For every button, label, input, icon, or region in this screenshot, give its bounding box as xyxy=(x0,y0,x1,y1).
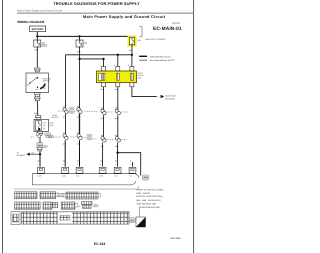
wire F3 down to node xyxy=(131,45,133,55)
connector T1 xyxy=(38,167,45,173)
svg-text:W/L: W/L xyxy=(129,49,132,52)
bracket for power-supply note xyxy=(140,27,142,37)
svg-text:: Non-detectable line for DTC: : Non-detectable line for DTC xyxy=(149,59,175,62)
wire col65 mid xyxy=(65,114,67,134)
wire col103 down xyxy=(102,143,104,167)
fuse F4 in J/B xyxy=(34,119,49,131)
node branch C end xyxy=(102,58,104,60)
wire col117 mid xyxy=(117,115,119,136)
connector T3 xyxy=(76,167,83,173)
svg-text:(M4) , (M6) : FUSE BLOCK-: (M4) , (M6) : FUSE BLOCK- xyxy=(136,199,161,202)
wire bus to F1 xyxy=(36,36,38,40)
wire J/B down xyxy=(39,135,41,166)
wire stub col132 xyxy=(132,162,134,167)
svg-text:8: 8 xyxy=(128,64,129,67)
connector face grid G2a xyxy=(15,202,40,209)
svg-text:JUNCTION BOX (J/B): JUNCTION BOX (J/B) xyxy=(136,202,156,205)
relay pin 3 top xyxy=(130,67,134,71)
header rule xyxy=(17,13,193,14)
connector face grid G2d xyxy=(61,202,75,209)
connector T2 xyxy=(62,167,69,173)
svg-text:Refer to EL-POWER.: Refer to EL-POWER. xyxy=(145,38,166,41)
relay pin 6 bottom xyxy=(130,83,134,87)
oval ref M6 xyxy=(47,135,54,137)
svg-text:MEC488B: MEC488B xyxy=(171,237,182,240)
svg-text:EC-MAIN-01: EC-MAIN-01 xyxy=(153,26,182,32)
connector face grid G1b xyxy=(40,192,56,199)
grid G1c label oval xyxy=(58,194,65,196)
wire battery to bus xyxy=(36,32,38,37)
small oval xyxy=(43,146,48,148)
svg-text:(E36) : SUPER: (E36) : SUPER xyxy=(136,192,150,195)
connector pair row2 col65 xyxy=(63,134,68,140)
svg-text:1: 1 xyxy=(158,95,159,98)
ECCS relay E1 highlight xyxy=(97,71,137,83)
wire top bus xyxy=(37,35,130,37)
grid G3 tail ovals xyxy=(129,218,135,220)
svg-text:W/L: W/L xyxy=(32,152,35,155)
connector below switch xyxy=(35,93,40,97)
wire into relay pin 1 xyxy=(103,59,105,67)
connector below J/B xyxy=(37,132,42,136)
fusible link F2 xyxy=(76,40,83,47)
wire branch C xyxy=(80,58,104,60)
connector into switch xyxy=(35,68,40,72)
svg-text:JUNCTION BOX (J/B): JUNCTION BOX (J/B) xyxy=(140,206,160,209)
svg-text:W/R: W/R xyxy=(35,49,39,52)
svg-text:B/W: B/W xyxy=(115,88,119,91)
grid G2 label oval xyxy=(93,205,99,207)
ignition switch S1 xyxy=(26,73,51,93)
connector pair row2 col117 xyxy=(115,137,120,143)
grids group rule xyxy=(14,186,139,189)
connector face grid G1c xyxy=(66,192,98,199)
svg-text:REFER TO THE FOLLOWING:: REFER TO THE FOLLOWING: xyxy=(136,189,164,192)
svg-text:Main Power Supply and Ground C: Main Power Supply and Ground Circuit xyxy=(83,14,166,19)
wire bus to F2 xyxy=(79,36,81,40)
connector below switch 2 xyxy=(35,97,40,101)
legend non-detectable line xyxy=(139,59,147,61)
connector stub xyxy=(37,147,42,151)
relay pin 1 top xyxy=(102,67,106,71)
wire relay pin5 down xyxy=(117,87,119,110)
connector pair row2 col103 xyxy=(101,137,106,143)
svg-text:To EC-MAIN: To EC-MAIN xyxy=(165,95,176,98)
wire branch right down xyxy=(118,153,141,176)
arrow to previous page xyxy=(26,153,29,156)
svg-text:(M4): (M4) xyxy=(50,124,54,127)
connector pair row2 col79 xyxy=(77,134,82,140)
svg-text:B/W: B/W xyxy=(115,160,119,163)
wire col103 mid xyxy=(103,115,105,136)
wire color labels at connector rows xyxy=(63,105,119,148)
svg-text:BATTERY: BATTERY xyxy=(32,28,44,31)
svg-text:TROUBLE DIAGNOSIS FOR POWER SU: TROUBLE DIAGNOSIS FOR POWER SUPPLY xyxy=(53,1,140,6)
connector pair row1 col79 xyxy=(77,108,82,114)
oval ref E36 xyxy=(36,143,43,145)
page right border xyxy=(193,0,195,253)
connector row 2 dashes xyxy=(31,137,128,140)
svg-text:W/L: W/L xyxy=(37,160,40,163)
fuse F3 10A xyxy=(129,37,134,45)
node bus B pin tap xyxy=(117,54,119,56)
wire switch down xyxy=(36,101,39,115)
svg-text:Main Power Supply and Ground C: Main Power Supply and Ground Circuit xyxy=(17,9,62,12)
arrow to next page xyxy=(161,95,165,98)
wire relay pin6 down then right xyxy=(132,87,157,97)
oval ref M4 xyxy=(44,133,51,135)
connector pair row1 col103 xyxy=(101,109,106,115)
connector row 1 dashes xyxy=(58,111,128,112)
grid G1b tail xyxy=(56,193,59,197)
connector into J/B xyxy=(36,115,41,119)
svg-text:6: 6 xyxy=(114,64,115,67)
relay internal contacts xyxy=(98,73,101,80)
node col117 branch xyxy=(116,152,118,154)
wire col79 down xyxy=(79,140,81,166)
svg-text:WIRING DIAGRAM: WIRING DIAGRAM xyxy=(17,20,45,24)
svg-text:B/W: B/W xyxy=(34,112,38,115)
node fuse F2 tap xyxy=(78,35,80,37)
battery B1 xyxy=(30,26,46,32)
fuse F3 highlight xyxy=(128,36,137,47)
grid G2d tail xyxy=(75,203,78,207)
small strip G2f xyxy=(83,205,92,208)
node battery junction xyxy=(36,35,38,37)
connector T4 xyxy=(99,167,106,173)
connector pair row2 col40 xyxy=(36,133,41,138)
node left column xyxy=(39,153,41,155)
svg-text:3: 3 xyxy=(100,64,101,67)
svg-text:W/L: W/L xyxy=(100,88,103,91)
svg-text:(E3): (E3) xyxy=(138,77,142,80)
connector ref labels under bottom row xyxy=(38,175,133,178)
wire col117 down xyxy=(117,143,119,167)
connector face grid G2b xyxy=(43,202,52,209)
connector pair row1 col117 xyxy=(115,109,120,115)
wire into relay pin 3 xyxy=(131,55,133,67)
relay pin 2 top xyxy=(116,67,120,71)
connector T5 xyxy=(114,167,121,173)
fusible link F1 xyxy=(34,40,41,47)
node F3 to bus B xyxy=(131,54,133,56)
svg-text:: Detectable line for DTC: : Detectable line for DTC xyxy=(149,55,171,58)
svg-text:W/L: W/L xyxy=(100,160,103,163)
grid G1c tails xyxy=(63,193,101,197)
wire col40 down xyxy=(39,154,41,166)
small overline above diagram id xyxy=(172,22,180,25)
svg-text:EC-MAIN: EC-MAIN xyxy=(17,154,26,157)
oval ref right of col79 xyxy=(87,134,92,136)
wire F2 down xyxy=(79,47,81,113)
wire col65 down xyxy=(64,140,66,166)
small grid G2c xyxy=(53,202,58,207)
legend detectable line xyxy=(139,55,147,57)
labels above bottom connectors xyxy=(37,160,131,163)
connector face grid G3 left box xyxy=(11,212,20,225)
wire into relay pin 2 xyxy=(117,55,119,67)
page left border xyxy=(2,0,4,253)
relay pin 4 bottom xyxy=(102,83,106,87)
wire mid bus B xyxy=(66,54,132,56)
connector T6 xyxy=(129,167,136,173)
node F2 branch xyxy=(78,58,80,60)
refer-to text block xyxy=(136,189,164,209)
wire col79 mid thick xyxy=(79,114,81,134)
connector face grid G3 xyxy=(22,212,130,224)
connector face grid G1a xyxy=(15,192,37,199)
svg-text:EC-154: EC-154 xyxy=(94,242,106,246)
connector pair row1 col65 xyxy=(63,108,68,114)
svg-text:ST: ST xyxy=(44,87,46,90)
svg-text:MULTIPLE JUNCTION (SMJ): MULTIPLE JUNCTION (SMJ) xyxy=(136,195,163,198)
small strip G2e xyxy=(82,201,93,204)
svg-text:(J/B): (J/B) xyxy=(50,121,54,124)
wire bus B left leg down xyxy=(65,55,67,108)
oval ref left of col79 xyxy=(69,108,74,110)
svg-text:W: W xyxy=(79,205,81,208)
relay pin 5 bottom xyxy=(116,83,120,87)
svg-text:SWITCH: SWITCH xyxy=(43,80,51,83)
grid G3 middle gap xyxy=(58,212,72,223)
wire F1 down xyxy=(36,47,38,68)
oval ref SMJ 2 xyxy=(142,178,149,180)
oval ref M2 xyxy=(36,146,43,148)
trim marker black/white xyxy=(136,217,146,227)
SMJ bracket xyxy=(33,174,140,185)
wire relay pin4 down xyxy=(103,87,105,110)
svg-text:32: 32 xyxy=(43,127,45,130)
svg-text:OFF: OFF xyxy=(27,84,30,87)
oval ref SMJ 1 xyxy=(142,175,149,177)
line to trim marker xyxy=(138,207,140,218)
svg-text:(EC-MAIN): (EC-MAIN) xyxy=(166,97,176,100)
svg-text:BLOCK: BLOCK xyxy=(52,116,59,119)
